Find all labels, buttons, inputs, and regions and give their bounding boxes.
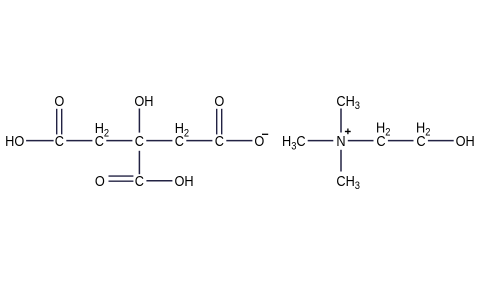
svg-text:C: C xyxy=(416,132,425,149)
wire CH2-OH xyxy=(428,140,454,142)
svg-text:C: C xyxy=(376,132,385,149)
wire C3-OH vertical xyxy=(138,109,140,133)
svg-text:HO: HO xyxy=(5,132,24,149)
wire C3-C4 xyxy=(146,140,172,142)
wire H3C-N xyxy=(308,140,334,142)
svg-text:O: O xyxy=(54,92,64,109)
wire CH2-CH2 xyxy=(388,140,414,142)
svg-text:C: C xyxy=(135,172,144,189)
svg-text:OH: OH xyxy=(174,172,193,189)
wire C1-C2 xyxy=(66,140,92,142)
wire HO-C1 xyxy=(26,140,53,142)
wire C6-OH xyxy=(146,180,172,182)
wire N-CH3 top xyxy=(340,109,342,133)
svg-text:C: C xyxy=(175,132,184,149)
svg-text:N: N xyxy=(336,132,345,149)
wire C4-C5 xyxy=(186,140,212,142)
svg-text:C: C xyxy=(215,132,224,149)
svg-text:C: C xyxy=(95,132,104,149)
superscript minus on O(-) xyxy=(262,133,268,135)
wire C2-C3 xyxy=(106,140,132,142)
double bond C1=O xyxy=(56,109,58,135)
svg-text:OH: OH xyxy=(456,132,475,149)
svg-text:OH: OH xyxy=(134,92,153,109)
wire N-CH2 xyxy=(348,140,374,142)
double bond C5=O xyxy=(216,109,218,135)
svg-text:O: O xyxy=(214,92,224,109)
plus sign on N xyxy=(345,131,351,133)
svg-text:C: C xyxy=(135,132,144,149)
double bond C6=O xyxy=(109,175,134,177)
wire C3-C6 vertical xyxy=(138,151,140,174)
svg-text:O: O xyxy=(254,132,264,149)
wire C5-O(-) xyxy=(226,140,252,142)
wire N-CH3 bottom xyxy=(340,150,342,172)
svg-text:C: C xyxy=(55,132,64,149)
svg-text:O: O xyxy=(95,172,105,189)
